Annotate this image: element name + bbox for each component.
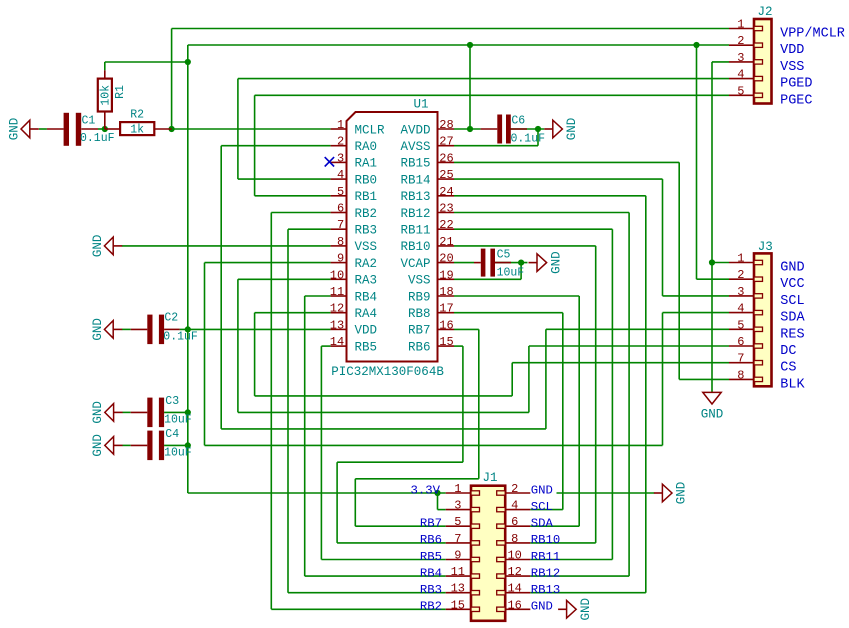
wire C4 right to VDD bbox=[164, 444, 188, 446]
wire 3.3V row to J1.1 bbox=[188, 492, 446, 494]
wire U1 pin 25 stub bbox=[438, 178, 455, 180]
ground flag at U1.8 VSS bbox=[104, 237, 113, 255]
svg-text:VDD: VDD bbox=[780, 43, 804, 58]
svg-text:3: 3 bbox=[337, 151, 344, 165]
wire C2 right to U1.13 bbox=[180, 328, 331, 330]
wire VDD J2.2 horizontal bbox=[188, 44, 729, 46]
svg-text:24: 24 bbox=[439, 185, 453, 199]
svg-text:RB1: RB1 bbox=[355, 190, 378, 204]
wire RA3 U1.10 west bbox=[238, 278, 331, 280]
svg-text:SDA: SDA bbox=[531, 517, 554, 531]
svg-text:PIC32MX130F064B: PIC32MX130F064B bbox=[331, 365, 444, 379]
svg-text:RB8: RB8 bbox=[408, 307, 431, 321]
wire RA2 low horizontal bbox=[205, 444, 663, 446]
wire GND J2.3 to vertical bbox=[712, 61, 729, 63]
svg-text:RB0: RB0 bbox=[355, 173, 378, 187]
ground flag at C3 bbox=[105, 404, 114, 422]
wire RB2 to J1.15 bbox=[271, 608, 445, 610]
wire J1 left pin stub row 7 bbox=[446, 592, 471, 594]
wire RB2 vertical bbox=[270, 213, 272, 610]
svg-text:RB11: RB11 bbox=[400, 224, 430, 238]
wire U1 pin 12 stub bbox=[331, 312, 347, 314]
svg-text:3: 3 bbox=[737, 51, 744, 65]
wire J3 pin 7 stub bbox=[729, 362, 754, 364]
svg-text:BLK: BLK bbox=[780, 377, 805, 392]
wire C6 right pin bbox=[511, 128, 528, 130]
node VDD/R1 junction bbox=[185, 59, 191, 65]
wire RES to J3.5 bbox=[546, 328, 729, 330]
wire RB3 U1.7 west bbox=[288, 228, 331, 230]
svg-text:16: 16 bbox=[507, 598, 521, 612]
wire J3 pin 6 stub bbox=[729, 345, 754, 347]
svg-text:28: 28 bbox=[439, 118, 453, 132]
svg-text:7: 7 bbox=[454, 532, 461, 546]
wire SCL to J1.4 bbox=[530, 509, 563, 511]
ground flag below J3 bbox=[703, 392, 721, 404]
wire CS vertical bbox=[511, 363, 513, 396]
svg-text:GND: GND bbox=[565, 118, 579, 141]
wire U1 pin 27 stub bbox=[438, 145, 455, 147]
wire J3 pin 2 stub bbox=[729, 278, 754, 280]
node VDD/C4 junction bbox=[185, 442, 191, 448]
wire U1 pin 15 stub bbox=[438, 345, 455, 347]
capacitor C6 bbox=[497, 115, 502, 144]
wire J1 right pin stub row 3 bbox=[505, 525, 530, 527]
wire RA4 U1.12 west bbox=[255, 312, 331, 314]
svg-text:RB4: RB4 bbox=[355, 290, 378, 304]
svg-text:6: 6 bbox=[337, 202, 344, 216]
svg-text:SCL: SCL bbox=[780, 294, 804, 309]
wire RB11 U1.22 east bbox=[454, 228, 612, 230]
svg-text:1: 1 bbox=[337, 118, 344, 132]
wire J1 left pin stub row 4 bbox=[446, 542, 471, 544]
svg-text:23: 23 bbox=[439, 202, 453, 216]
svg-text:3: 3 bbox=[454, 499, 461, 513]
wire J1 left pin stub row 3 bbox=[446, 525, 471, 527]
svg-text:2: 2 bbox=[737, 34, 744, 48]
wire J1 right pin stub row 2 bbox=[505, 509, 530, 511]
wire RB6 vertical west bbox=[336, 462, 338, 543]
wire RB14 U1.25 east bbox=[454, 178, 663, 180]
svg-text:3.3V: 3.3V bbox=[410, 483, 440, 497]
wire C2 right pin bbox=[164, 328, 180, 330]
ground flag at J1.2 bbox=[662, 484, 672, 502]
wire U1 pin 1 stub bbox=[331, 128, 347, 130]
svg-text:1k: 1k bbox=[130, 123, 144, 136]
svg-text:10: 10 bbox=[330, 268, 344, 282]
wire RES vertical bbox=[545, 329, 547, 429]
svg-text:RB9: RB9 bbox=[408, 290, 431, 304]
ground flag at C2 bbox=[104, 321, 113, 339]
svg-text:GND: GND bbox=[531, 600, 553, 614]
svg-text:GND: GND bbox=[549, 251, 563, 274]
ground flag at C5 bbox=[537, 254, 547, 272]
wire 3.3V drop to J1.3 bbox=[437, 493, 439, 510]
wire J1 left pin stub row 1 bbox=[446, 492, 471, 494]
wire VSS U1.19 bbox=[454, 278, 521, 280]
wire RB7 U1.16 east bbox=[454, 328, 479, 330]
svg-text:15: 15 bbox=[439, 335, 453, 349]
wire RA0 vertical bbox=[220, 146, 222, 429]
svg-text:C2: C2 bbox=[164, 312, 178, 325]
wire PGED vertical bbox=[237, 79, 239, 180]
svg-text:R2: R2 bbox=[130, 108, 144, 121]
svg-text:RB11: RB11 bbox=[531, 550, 561, 564]
wire J1 right pin stub row 4 bbox=[505, 542, 530, 544]
svg-text:VSS: VSS bbox=[408, 274, 431, 288]
svg-text:C3: C3 bbox=[165, 395, 179, 408]
wire RB13 vertical bbox=[645, 196, 647, 593]
wire RB8 vertical bbox=[562, 313, 564, 510]
node C6/AVSS GND junction bbox=[535, 126, 541, 132]
svg-text:6: 6 bbox=[511, 515, 518, 529]
wire RB13 to J1.14 bbox=[530, 592, 646, 594]
wire RB10 U1.21 east bbox=[454, 245, 596, 247]
svg-text:PGEC: PGEC bbox=[780, 93, 812, 108]
node VDD/AVDD junction bbox=[467, 42, 473, 48]
wire C1 right to node bbox=[98, 128, 105, 130]
svg-text:RA4: RA4 bbox=[355, 307, 378, 321]
wire MCLR J2.1 horizontal bbox=[172, 28, 729, 30]
svg-text:6: 6 bbox=[737, 335, 744, 349]
svg-text:10k: 10k bbox=[99, 85, 112, 106]
svg-text:RB7: RB7 bbox=[408, 324, 431, 338]
wire RB5 U1.14 west bbox=[321, 345, 330, 347]
wire MCLR vertical bbox=[171, 29, 173, 130]
wire RB6 west horizontal bbox=[337, 461, 463, 463]
wire U1 pin 14 stub bbox=[331, 345, 347, 347]
capacitor C1 bbox=[64, 113, 69, 146]
svg-text:11: 11 bbox=[330, 285, 344, 299]
svg-text:4: 4 bbox=[737, 302, 744, 316]
svg-text:2: 2 bbox=[737, 268, 744, 282]
wire C2 left pin bbox=[131, 328, 148, 330]
svg-text:RB13: RB13 bbox=[400, 190, 430, 204]
svg-text:C4: C4 bbox=[165, 428, 179, 441]
svg-text:RB5: RB5 bbox=[355, 340, 378, 354]
wire RA0 U1.2 west bbox=[221, 145, 330, 147]
wire VDD to R1 top bbox=[105, 61, 188, 63]
wire MCLR R2 to U1.1 bbox=[172, 128, 331, 130]
svg-text:27: 27 bbox=[439, 135, 453, 149]
wire C4 left pin bbox=[131, 444, 148, 446]
wire J3 pin 3 stub bbox=[729, 295, 754, 297]
svg-text:R1: R1 bbox=[114, 85, 127, 99]
wire SDA2 vertical bbox=[662, 313, 664, 446]
wire J1 right pin stub row 6 bbox=[505, 575, 530, 577]
svg-text:AVSS: AVSS bbox=[400, 140, 430, 154]
wire C3 left pin bbox=[131, 411, 148, 413]
wire U1 pin 13 stub bbox=[331, 328, 347, 330]
wire VCC to J3.2 bbox=[697, 278, 730, 280]
wire U1 pin 19 stub bbox=[438, 278, 455, 280]
svg-text:4: 4 bbox=[337, 168, 344, 182]
wire RB15 U1.26 east bbox=[454, 161, 679, 163]
svg-text:RB12: RB12 bbox=[531, 566, 561, 580]
svg-text:RB12: RB12 bbox=[400, 207, 430, 221]
wire J2 pin 4 stub bbox=[729, 78, 754, 80]
wire C1 left pin bbox=[47, 128, 64, 130]
wire C1 right pin bbox=[81, 128, 98, 130]
wire J3 pin 1 stub bbox=[729, 262, 754, 264]
wire C4 left bbox=[123, 444, 131, 446]
wire RA2 U1.9 west bbox=[205, 262, 331, 264]
svg-text:RB6: RB6 bbox=[408, 340, 431, 354]
wire RB4 vertical bbox=[304, 296, 306, 576]
wire J2 pin 2 stub bbox=[729, 44, 754, 46]
wire GND main vertical bbox=[711, 62, 713, 392]
wire J1 left pin stub row 6 bbox=[446, 575, 471, 577]
svg-text:CS: CS bbox=[780, 361, 796, 376]
wire U1 pin 3 stub bbox=[331, 161, 347, 163]
wire RB7 vertical east bbox=[478, 329, 480, 478]
svg-text:0.1uF: 0.1uF bbox=[511, 132, 546, 145]
svg-text:14: 14 bbox=[330, 335, 344, 349]
wire SDA to J1.6 bbox=[530, 525, 579, 527]
svg-text:GND: GND bbox=[531, 483, 553, 497]
wire SDA to J3.4 bbox=[663, 312, 730, 314]
wire RB13 U1.24 east bbox=[454, 195, 646, 197]
wire PGED to U1.4 bbox=[238, 178, 331, 180]
svg-text:7: 7 bbox=[337, 218, 344, 232]
wire RA4 vertical bbox=[254, 313, 256, 396]
wire J1 right pin stub row 1 bbox=[505, 492, 530, 494]
wire U1 pin 8 stub bbox=[331, 245, 347, 247]
wire PGEC vertical bbox=[254, 95, 256, 196]
svg-text:GND: GND bbox=[579, 598, 593, 621]
svg-text:VCC: VCC bbox=[780, 277, 804, 292]
wire RB9 U1.18 east bbox=[454, 295, 579, 297]
wire RB15 vertical bbox=[678, 162, 680, 379]
wire RA3 vertical bbox=[237, 279, 239, 412]
wire J1 left pin stub row 8 bbox=[446, 608, 471, 610]
svg-text:VDD: VDD bbox=[355, 324, 378, 338]
wire RB8 U1.17 east bbox=[454, 312, 563, 314]
svg-text:RB3: RB3 bbox=[355, 224, 378, 238]
wire RB7 to J1.5 bbox=[355, 525, 445, 527]
wire BLK to J3.8 bbox=[679, 378, 729, 380]
svg-text:GND: GND bbox=[91, 401, 105, 424]
wire U1 pin 11 stub bbox=[331, 295, 347, 297]
svg-text:J3: J3 bbox=[758, 240, 773, 254]
wire C3 right to VDD bbox=[164, 411, 188, 413]
svg-text:26: 26 bbox=[439, 151, 453, 165]
svg-text:11: 11 bbox=[451, 565, 465, 579]
node VDD/C2 junction bbox=[185, 326, 191, 332]
wire U1 pin 22 stub bbox=[438, 228, 455, 230]
node 3.3V/J1.3 junction bbox=[434, 490, 440, 496]
wire PGEC horizontal J2.5 bbox=[255, 94, 729, 96]
wire AVSS U1.27 bbox=[454, 145, 538, 147]
wire RA4 low horizontal bbox=[255, 395, 513, 397]
resistor R2 bbox=[120, 122, 154, 135]
wire J1 right pin stub row 7 bbox=[505, 592, 530, 594]
svg-text:14: 14 bbox=[507, 582, 521, 596]
svg-text:13: 13 bbox=[330, 318, 344, 332]
wire C6 left pin bbox=[481, 128, 498, 130]
wire U1 pin 28 stub bbox=[438, 128, 455, 130]
op-amp U1 PIC32MX130F064B bbox=[347, 112, 438, 362]
wire C5 right to GND bbox=[495, 262, 528, 264]
svg-text:1: 1 bbox=[454, 482, 461, 496]
wire VSS19 vertical bbox=[520, 263, 522, 280]
svg-text:15: 15 bbox=[451, 598, 465, 612]
wire J1 right pin stub row 8 bbox=[505, 608, 530, 610]
wire RB6 vertical east bbox=[462, 346, 464, 462]
wire PGEC to U1.5 bbox=[255, 195, 331, 197]
svg-text:25: 25 bbox=[439, 168, 453, 182]
svg-text:4: 4 bbox=[511, 499, 518, 513]
svg-text:10uF: 10uF bbox=[164, 414, 192, 427]
svg-text:GND: GND bbox=[780, 261, 804, 276]
wire R2 left lead bbox=[105, 128, 120, 130]
wire RB11 vertical bbox=[611, 229, 613, 559]
svg-text:8: 8 bbox=[737, 368, 744, 382]
svg-text:RA3: RA3 bbox=[355, 274, 378, 288]
wire J2 pin 1 stub bbox=[729, 28, 754, 30]
svg-text:GND: GND bbox=[91, 318, 105, 341]
svg-text:SDA: SDA bbox=[780, 311, 805, 326]
capacitor C4 bbox=[147, 431, 152, 461]
svg-text:5: 5 bbox=[737, 84, 744, 98]
wire RA3 low horizontal bbox=[238, 411, 529, 413]
svg-text:13: 13 bbox=[451, 582, 465, 596]
svg-text:RB15: RB15 bbox=[400, 157, 430, 171]
wire U1 pin 23 stub bbox=[438, 212, 455, 214]
wire VDD main vertical bbox=[187, 45, 189, 493]
ground flag at C6 bbox=[553, 120, 563, 138]
svg-text:22: 22 bbox=[439, 218, 453, 232]
svg-text:18: 18 bbox=[439, 285, 453, 299]
connector J3 bbox=[754, 253, 772, 386]
svg-text:RB2: RB2 bbox=[355, 207, 378, 221]
svg-text:9: 9 bbox=[454, 549, 461, 563]
wire AVDD U1.28 to C6 bbox=[454, 128, 481, 130]
svg-text:GND: GND bbox=[7, 118, 21, 141]
node VDD/C3 junction bbox=[185, 409, 191, 415]
wire C3 left bbox=[123, 411, 131, 413]
svg-text:RB7: RB7 bbox=[420, 517, 442, 531]
svg-text:RB4: RB4 bbox=[420, 566, 442, 580]
wire C1 left bbox=[39, 128, 47, 130]
wire RB2 U1.6 west bbox=[271, 212, 330, 214]
ground flag at C1 bbox=[21, 120, 30, 138]
wire GND to J3.1 bbox=[712, 262, 729, 264]
wire RB5 to J1.9 bbox=[321, 559, 445, 561]
wire SCL to J3.3 bbox=[663, 295, 730, 297]
node AVDD/C6 junction bbox=[467, 126, 473, 132]
wire J3 pin 4 stub bbox=[729, 312, 754, 314]
svg-text:RES: RES bbox=[780, 327, 804, 342]
wire J1 right pin stub row 5 bbox=[505, 559, 530, 561]
svg-text:5: 5 bbox=[737, 318, 744, 332]
wire VCAP U1.20 to C5 bbox=[454, 262, 474, 264]
svg-text:J2: J2 bbox=[758, 5, 773, 19]
capacitor C5 bbox=[481, 249, 486, 277]
wire RA2 vertical bbox=[204, 263, 206, 446]
wire RB14 vertical bbox=[662, 179, 664, 296]
wire R1 top lead upper bbox=[104, 62, 106, 70]
svg-text:RA1: RA1 bbox=[355, 157, 378, 171]
svg-text:VSS: VSS bbox=[780, 60, 804, 75]
svg-text:C5: C5 bbox=[497, 249, 511, 262]
svg-text:RB10: RB10 bbox=[531, 533, 561, 547]
wire RB10 to J1.8 bbox=[530, 542, 595, 544]
svg-text:DC: DC bbox=[780, 344, 796, 359]
svg-text:0.1uF: 0.1uF bbox=[80, 132, 115, 145]
svg-text:GND: GND bbox=[91, 235, 105, 258]
wire J2 pin 5 stub bbox=[729, 94, 754, 96]
svg-text:0.1uF: 0.1uF bbox=[163, 331, 198, 344]
wire R1 bottom lead bbox=[104, 112, 106, 130]
svg-text:10: 10 bbox=[507, 549, 521, 563]
connector J2 bbox=[754, 19, 772, 104]
wire J1 left pin stub row 5 bbox=[446, 559, 471, 561]
svg-text:RB3: RB3 bbox=[420, 583, 442, 597]
wire RB3 to J1.13 bbox=[288, 592, 446, 594]
wire DC vertical bbox=[528, 346, 530, 412]
wire RB3 vertical bbox=[287, 229, 289, 593]
svg-text:GND: GND bbox=[91, 434, 105, 457]
svg-text:3: 3 bbox=[737, 285, 744, 299]
svg-text:1: 1 bbox=[737, 18, 744, 32]
wire RB11 to J1.10 bbox=[530, 559, 612, 561]
wire R1 top lead bbox=[104, 70, 106, 78]
svg-text:7: 7 bbox=[737, 352, 744, 366]
wire AVDD branch vertical bbox=[469, 45, 471, 129]
node C5/VSS GND junction bbox=[518, 260, 524, 266]
capacitor C3 bbox=[147, 398, 152, 428]
svg-text:RB14: RB14 bbox=[400, 173, 430, 187]
node VDD/VCC junction bbox=[693, 42, 699, 48]
svg-text:MCLR: MCLR bbox=[355, 123, 386, 137]
wire DC to J3.6 bbox=[529, 345, 729, 347]
wire RB12 vertical bbox=[628, 213, 630, 577]
wire GND to U1.8 VSS bbox=[122, 245, 331, 247]
wire RB12 to J1.12 bbox=[530, 575, 629, 577]
wire PGED horizontal J2.4 bbox=[238, 78, 729, 80]
wire RB4 U1.11 west bbox=[305, 295, 331, 297]
svg-text:2: 2 bbox=[337, 135, 344, 149]
node GND/J3.1 junction bbox=[709, 259, 715, 265]
wire U1 pin 4 stub bbox=[331, 178, 347, 180]
wire RB12 U1.23 east bbox=[454, 212, 629, 214]
wire U1 pin 26 stub bbox=[438, 161, 455, 163]
wire VCC branch vertical bbox=[696, 45, 698, 279]
svg-text:20: 20 bbox=[439, 252, 453, 266]
svg-text:12: 12 bbox=[507, 565, 521, 579]
svg-text:J1: J1 bbox=[483, 471, 498, 485]
svg-text:4: 4 bbox=[737, 68, 744, 82]
wire U1 pin 16 stub bbox=[438, 328, 455, 330]
ground flag at J1.16 bbox=[567, 601, 577, 619]
wire U1 pin 7 stub bbox=[331, 228, 347, 230]
svg-text:17: 17 bbox=[439, 302, 453, 316]
wire U1 pin 5 stub bbox=[331, 195, 347, 197]
wire J1 left pin stub row 2 bbox=[446, 509, 471, 511]
wire R2 right lead bbox=[154, 128, 171, 130]
svg-text:U1: U1 bbox=[414, 98, 429, 112]
wire U1 pin 6 stub bbox=[331, 212, 347, 214]
svg-text:5: 5 bbox=[454, 515, 461, 529]
svg-text:5: 5 bbox=[337, 185, 344, 199]
capacitor C2 bbox=[147, 315, 152, 345]
wire AVSS vertical bbox=[537, 129, 539, 146]
wire U1 pin 21 stub bbox=[438, 245, 455, 247]
no-connect X at U1 pin 3 bbox=[325, 157, 334, 166]
wire U1 pin 18 stub bbox=[438, 295, 455, 297]
svg-text:RB2: RB2 bbox=[420, 600, 442, 614]
